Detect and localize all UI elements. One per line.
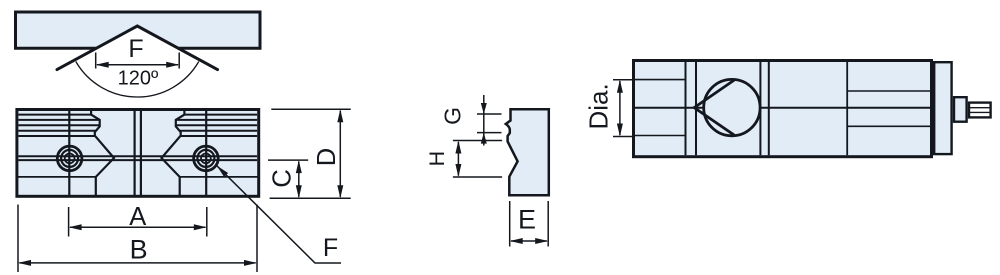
svg-text:D: D — [313, 148, 341, 166]
left screw hole circles — [57, 146, 82, 171]
svg-text:G: G — [439, 107, 465, 125]
serration lines left — [18, 114, 91, 116]
step profile right half — [162, 110, 185, 197]
dim C arrow line — [298, 162, 300, 197]
serration lines right — [184, 114, 257, 116]
dim E extension ticks — [509, 201, 511, 247]
right screw hole circles — [194, 146, 219, 171]
dim B extension ticks — [17, 205, 19, 273]
bottom step line right — [180, 176, 259, 178]
120 deg arc — [76, 62, 199, 98]
svg-text:E: E — [518, 204, 536, 234]
vertical line through right hole — [205, 110, 207, 197]
bottom step line left — [17, 176, 96, 178]
dim G extension ticks — [477, 113, 502, 115]
dim A arrow line — [70, 226, 205, 228]
svg-text:Dia.: Dia. — [583, 83, 613, 129]
svg-text:B: B — [130, 235, 148, 265]
dim F extension ticks — [95, 53, 97, 69]
svg-text:F: F — [323, 234, 338, 262]
step profile left half — [91, 110, 114, 197]
right section upper line — [847, 90, 930, 92]
shared bottom extension line — [270, 197, 351, 199]
V notch cutout (white) — [57, 26, 218, 70]
vertical line through left hole — [68, 110, 70, 197]
dim A extension ticks — [68, 207, 70, 237]
dim E arrow line — [511, 240, 547, 242]
dim F arrow line — [97, 64, 178, 66]
svg-text:120º: 120º — [118, 68, 159, 90]
jaw cross-section profile — [506, 109, 549, 195]
dim Dia arrow line — [619, 81, 621, 135]
dim D top extension line — [271, 108, 350, 110]
svg-text:F: F — [128, 35, 143, 63]
V groove lines — [57, 26, 218, 70]
dim C top extension line — [268, 159, 308, 161]
top jaw bar outline (open at notch) — [16, 12, 261, 48]
screw end knob — [969, 103, 991, 118]
leader line F to right hole — [217, 166, 341, 263]
top jaw bar fill — [16, 12, 261, 48]
top tangent line (left section) — [635, 79, 686, 81]
center line — [635, 107, 930, 109]
body section line — [846, 62, 848, 155]
svg-text:A: A — [129, 203, 146, 231]
V jaw grip lines — [694, 80, 734, 135]
vise body — [634, 61, 932, 157]
right section lower line — [847, 125, 930, 127]
screw collar — [954, 97, 967, 122]
horizontal groove band lines — [18, 155, 257, 157]
svg-text:C: C — [269, 169, 297, 187]
dim B arrow line — [19, 262, 255, 264]
dim D arrow line — [339, 111, 341, 197]
dim Dia extension ticks — [613, 79, 634, 81]
knob slot lines — [969, 107, 991, 109]
svg-text:H: H — [425, 151, 449, 167]
fixed jaw plate lines — [759, 62, 761, 155]
jaw block body — [17, 110, 259, 197]
dim H arrow line — [457, 142, 459, 176]
round workpiece — [704, 79, 760, 135]
center groove double lines — [134, 110, 136, 197]
dim G arrow line — [483, 95, 485, 146]
movable jaw plate lines — [685, 62, 687, 155]
bottom tangent line (left section) — [635, 135, 686, 137]
dim H extension lines — [453, 140, 502, 142]
end cap — [934, 62, 951, 154]
